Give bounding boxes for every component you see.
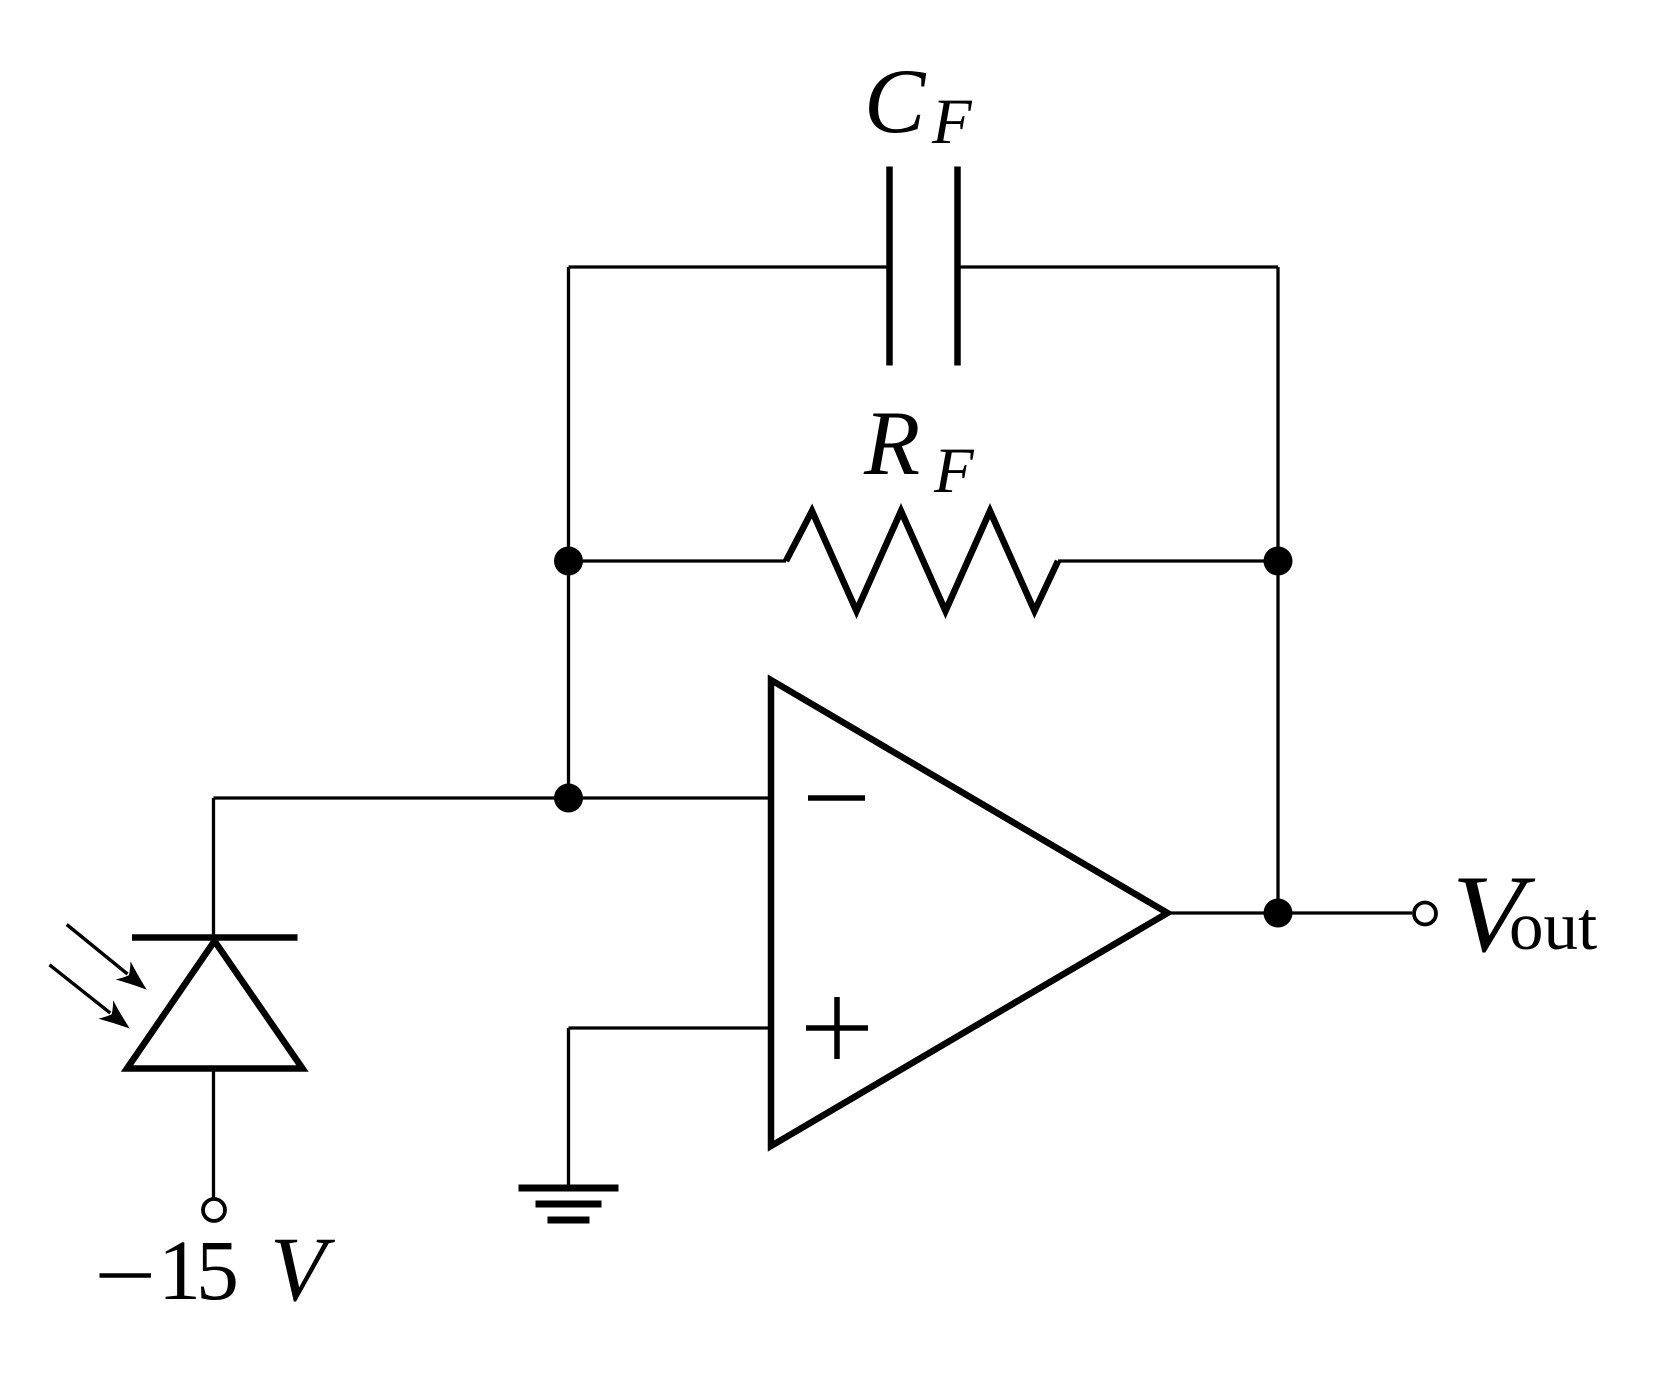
ground bbox=[519, 1188, 619, 1220]
wire output (op-amp apex to Vout terminal) bbox=[1168, 911, 1413, 914]
resistor R_F bbox=[786, 511, 1058, 611]
light arrow 2 bbox=[50, 965, 130, 1029]
wire resistor right lead bbox=[1058, 559, 1278, 562]
svg-text:F: F bbox=[931, 86, 973, 158]
light arrow 1 bbox=[67, 925, 147, 990]
svg-text:F: F bbox=[933, 435, 975, 507]
terminal -15V (open circle) bbox=[203, 1199, 225, 1221]
node: junction dot at resistor left (inverting rail) bbox=[554, 547, 583, 576]
wire top-left horizontal segment (inverting node to capacitor left plate) bbox=[569, 265, 887, 268]
wire inverting input (photodiode cathode to op-amp minus input) bbox=[214, 796, 772, 799]
terminal Vout (open circle) bbox=[1414, 903, 1436, 925]
capacitor C_F bbox=[890, 167, 958, 366]
label -15 V bbox=[100, 1218, 337, 1320]
svg-text:C: C bbox=[864, 50, 927, 152]
op-amp U1 bbox=[771, 680, 1168, 1146]
node: junction dot at output bbox=[1264, 899, 1293, 928]
label V_out bbox=[1452, 853, 1597, 975]
svg-text:V: V bbox=[270, 1218, 336, 1320]
wire right vertical rail (top wire down to output node) bbox=[1276, 267, 1279, 913]
wire top-right horizontal segment (capacitor right plate to output node) bbox=[961, 265, 1279, 268]
wire photodiode anode lead bbox=[212, 1069, 215, 1199]
svg-text:R: R bbox=[863, 392, 920, 494]
wire ground lead bbox=[567, 1028, 570, 1188]
svg-text:1: 1 bbox=[158, 1222, 201, 1318]
wire photodiode cathode lead bbox=[212, 798, 215, 938]
node: junction dot at inverting input bbox=[554, 784, 583, 813]
label C_F bbox=[864, 50, 973, 158]
photodiode D1 bbox=[127, 938, 303, 1069]
svg-text:5: 5 bbox=[196, 1222, 239, 1318]
wire non-inverting input bbox=[569, 1026, 772, 1029]
wire left vertical rail (top wire down to inverting input node) bbox=[567, 267, 570, 798]
wire resistor left lead bbox=[569, 559, 787, 562]
label R_F bbox=[863, 392, 975, 507]
node: junction dot at resistor right (output rail) bbox=[1264, 547, 1293, 576]
svg-text:out: out bbox=[1509, 888, 1597, 964]
